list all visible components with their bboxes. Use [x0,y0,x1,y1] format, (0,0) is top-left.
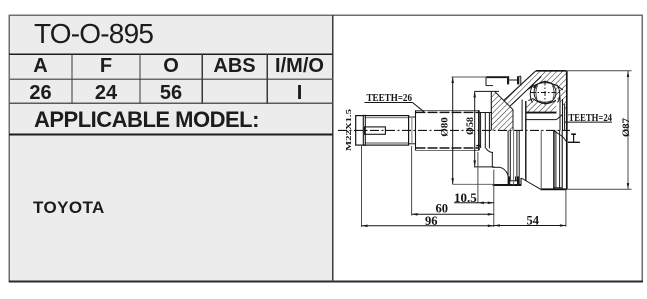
svg-text:TEETH=26: TEETH=26 [367,93,413,104]
race left face [525,101,527,130]
cage left edge [521,100,523,131]
bottom cone to mouth [521,178,540,189]
inner cone line [510,77,542,107]
dim d87 [627,71,629,189]
extension lines bottom dims [361,146,363,227]
thread root lines [365,117,408,119]
washer rings [479,112,492,114]
dim d58 [474,91,476,166]
T symbol [571,133,576,135]
back disc edges [490,91,492,130]
threaded stub M22 [356,116,409,146]
hatch: back wall + disc mass [491,92,513,131]
race bottom thick line [526,112,557,114]
hatch: bell wall top (cone band, over-ball wedge, mouth side) [504,71,567,111]
dim 54 [494,225,566,227]
left gray panel [9,15,333,282]
centerline main [338,129,570,131]
table texts [34,18,153,50]
splined shaft TEETH=26 [416,109,479,111]
svg-text:Ø80: Ø80 [441,117,451,137]
race silhouette bottom [525,130,527,180]
outer cone line [504,71,536,101]
leader TEETH=26 [365,102,413,104]
back wall inner edge [512,110,514,131]
dim d80 [452,77,454,184]
hatch: inner race top section [526,99,557,113]
svg-text:96: 96 [425,214,438,228]
neck between stub and spline [409,116,416,118]
ball (white over hatch) [534,82,556,104]
mouth chamfer curve bottom [554,131,566,142]
slot in stub [365,127,386,134]
dim 10.5 [454,202,494,204]
dim 60 [412,213,494,215]
back wall chamfer line [495,92,513,110]
ball crosshair [531,92,562,94]
leader TEETH=24 [564,121,612,123]
svg-text:Ø87: Ø87 [622,118,632,137]
svg-text:Ø58: Ø58 [466,117,476,135]
snap ring groove at mouth bottom [553,130,555,189]
panel divider [332,15,334,282]
bore spline line [526,119,557,121]
boot collar top [486,76,507,78]
svg-text:M22X1.5: M22X1.5 [345,108,353,151]
cage arcs [530,85,533,103]
dim 96 [362,225,494,227]
mouth bore verticals top [559,97,561,130]
bell mouth face [566,71,568,190]
table rules [9,53,333,55]
bell cone + flat top [536,70,567,72]
svg-text:10.5: 10.5 [454,190,477,205]
track arc over ball [527,83,563,90]
svg-text:TEETH=24: TEETH=24 [569,113,613,124]
boot collar bottom [493,184,522,186]
spline end face [478,110,480,150]
boot groove silhouette verticals bottom [507,130,509,185]
svg-text:54: 54 [527,213,540,227]
race top arc under ball [528,99,556,104]
